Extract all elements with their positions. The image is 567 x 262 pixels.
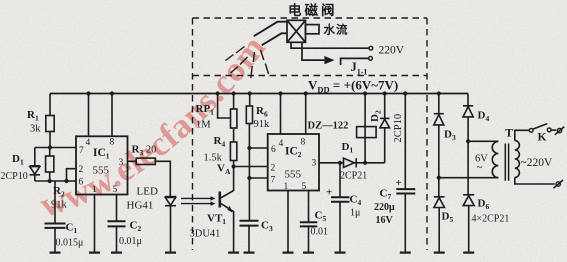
- dashed enclosure left vertical: [192, 18, 194, 250]
- ground foot LED: [165, 252, 176, 254]
- node AC2 junction dot: [466, 139, 470, 143]
- phototransistor VT1 collector wire: [221, 167, 234, 198]
- svg-text:16V: 16V: [376, 215, 394, 226]
- svg-text:220μ: 220μ: [374, 202, 395, 213]
- IC2 pin 7 wire: [249, 177, 267, 179]
- ground foot IC2 pin1: [283, 252, 294, 254]
- svg-text:DZ—122: DZ—122: [308, 121, 349, 132]
- line terminal bottom: [556, 182, 560, 186]
- diode D1 (2CP21) symbol: [344, 158, 355, 167]
- IC2 pin labels: [271, 138, 317, 193]
- svg-text:1M: 1M: [196, 120, 211, 131]
- svg-text:91k: 91k: [51, 200, 68, 211]
- capacitor C7 top lead: [404, 94, 406, 189]
- svg-text:+: +: [326, 187, 332, 199]
- transformer primary top wire: [468, 140, 498, 142]
- valve outlet pipe: [306, 25, 320, 34]
- diode D1 branch wire: [34, 148, 36, 182]
- resistor R2 leads: [49, 148, 51, 182]
- svg-text:电磁阀: 电磁阀: [288, 2, 338, 18]
- svg-text:1μ: 1μ: [350, 208, 360, 219]
- node A junction dot: [48, 145, 52, 149]
- svg-text:3: 3: [119, 158, 124, 168]
- diode D4 branch wire: [467, 94, 469, 195]
- IC2 pin 1 wire to ground: [287, 191, 289, 253]
- solenoid valve body: [287, 20, 306, 42]
- diode D6 symbol: [463, 194, 474, 196]
- diode D5 symbol: [434, 196, 445, 198]
- svg-text:8: 8: [110, 138, 115, 148]
- ground foot C2: [111, 252, 122, 254]
- svg-text:~220V: ~220V: [521, 157, 553, 169]
- diode D6 bottom lead: [468, 206, 470, 253]
- VDD rail wire: [50, 93, 468, 95]
- IC2 pin 2 wire from VA: [234, 166, 268, 168]
- svg-text:4: 4: [86, 138, 91, 148]
- svg-text:3DU41: 3DU41: [190, 229, 221, 240]
- svg-text:0.01μ: 0.01μ: [119, 236, 142, 247]
- diode D5 bottom lead: [438, 208, 440, 253]
- svg-text:2: 2: [79, 165, 84, 175]
- potentiometer RP1 body: [231, 109, 237, 128]
- junction dot relay bottom: [363, 161, 367, 165]
- wire switch to line terminal: [551, 129, 556, 131]
- diode D4 symbol: [463, 105, 473, 107]
- resistor R6 leads: [248, 94, 250, 221]
- relay contact J1-1 arrow: [324, 56, 334, 64]
- resistor R1 body: [46, 116, 54, 132]
- LED HG41 symbol: [165, 196, 176, 198]
- IC2 555 box: [268, 134, 319, 191]
- wire valve to 220V top terminal: [291, 42, 369, 48]
- ground foot IC1 pin1: [89, 252, 100, 254]
- capacitor C3 plates: [240, 221, 259, 226]
- capacitor C4 bottom lead: [339, 202, 341, 253]
- terminal 220V bottom: [369, 56, 373, 60]
- svg-text:5: 5: [302, 182, 307, 192]
- svg-text:220V: 220V: [379, 45, 405, 57]
- ground foot D6: [463, 252, 474, 254]
- relay coil DZ wire: [364, 94, 366, 163]
- ground foot C4: [335, 252, 346, 254]
- svg-text:2CP10: 2CP10: [1, 171, 28, 182]
- transformer secondary winding: [515, 141, 520, 178]
- IC2 pin 8 wire to rail: [305, 94, 307, 135]
- node AC1 junction dot: [437, 176, 441, 180]
- resistor R4 body: [230, 142, 236, 161]
- node B junction dots: [48, 179, 52, 183]
- svg-text:2CP21: 2CP21: [340, 171, 367, 182]
- svg-text:T: T: [505, 126, 513, 140]
- ground foot C5: [303, 252, 314, 254]
- svg-text:7: 7: [79, 146, 84, 156]
- svg-text:6: 6: [79, 178, 84, 188]
- diode D3 symbol: [434, 113, 444, 115]
- junction dot C4 branch: [338, 161, 342, 165]
- svg-text:水流: 水流: [324, 23, 349, 37]
- diode D2 symbol: [380, 117, 390, 119]
- svg-text:555: 555: [93, 165, 110, 177]
- capacitor C2 plates: [108, 221, 126, 226]
- ground foot D5: [434, 252, 445, 254]
- IC2 pin 3 wire: [319, 162, 344, 164]
- svg-text:7: 7: [271, 176, 276, 186]
- pin 2 wire of IC1: [67, 169, 77, 181]
- switch K throw circle: [547, 128, 551, 132]
- transformer primary winding: [492, 141, 498, 177]
- LED light arrows to VT1: [181, 198, 212, 203]
- resistor R1 leads: [49, 94, 51, 148]
- svg-text:91k: 91k: [254, 119, 271, 130]
- relay contact fixed lever: [341, 58, 369, 65]
- ground foot VT1 emitter: [228, 252, 239, 254]
- IC2 pin 5 wire to C5: [308, 191, 310, 223]
- IC2 pin 6 wire: [249, 147, 267, 149]
- capacitor C7 bottom lead: [404, 194, 406, 253]
- svg-text:4×2CP21: 4×2CP21: [472, 214, 510, 225]
- capacitor C5 plates: [300, 222, 318, 226]
- spray nozzle pipe: [254, 22, 287, 37]
- VT1 emitter arrowhead: [227, 206, 232, 213]
- resistor R6 body: [246, 106, 252, 124]
- svg-text:6: 6: [271, 145, 276, 155]
- transformer core: [505, 144, 508, 181]
- IC1 pin 4 wire to rail: [88, 94, 90, 137]
- svg-text:1: 1: [92, 185, 97, 195]
- svg-text:3: 3: [312, 159, 317, 169]
- wire D1 cathode to relay/D2 node: [354, 162, 385, 164]
- IC2 pin 4 wire to rail: [280, 94, 282, 135]
- svg-text:8: 8: [301, 138, 306, 148]
- ground foot C3: [244, 252, 255, 254]
- IC1 pin 8 wire to rail: [111, 94, 113, 137]
- terminal 220V top: [369, 46, 373, 50]
- svg-text:4: 4: [279, 139, 284, 149]
- potentiometer RP1 leads: [233, 94, 235, 143]
- dashed enclosure right vertical: [426, 18, 428, 250]
- capacitor C7 plates: [396, 189, 415, 193]
- water spray dashes: [226, 47, 269, 79]
- capacitor C2 bottom lead: [116, 226, 118, 252]
- svg-text:5: 5: [113, 185, 118, 195]
- svg-text:~: ~: [477, 162, 483, 174]
- phototransistor VT1 emitter wire: [221, 204, 234, 253]
- svg-text:+: +: [396, 177, 402, 189]
- IC1 pin 5 wire to C2: [116, 195, 118, 222]
- svg-text:LED: LED: [137, 186, 158, 198]
- IC1 pin 3 wire: [128, 161, 171, 196]
- capacitor C1 plates: [45, 224, 66, 228]
- dashed enclosure top edge: [193, 17, 428, 19]
- secondary bottom wire: [515, 177, 555, 184]
- svg-text:HG41: HG41: [127, 200, 154, 212]
- dashed enclosure inner horizontal edge: [193, 75, 428, 77]
- wire valve to relay contact: [302, 42, 324, 60]
- capacitor C3 bottom lead: [248, 226, 250, 253]
- potentiometer RP1 wiper wire: [218, 94, 231, 119]
- node B wire (D1/R2/C1 to pin 6): [35, 180, 76, 182]
- capacitor C5 bottom lead: [308, 226, 310, 252]
- svg-text:0.015μ: 0.015μ: [56, 238, 84, 249]
- capacitor C4 plates: [331, 197, 350, 201]
- transformer primary bottom wire: [439, 177, 499, 179]
- resistor R3 body: [136, 158, 155, 164]
- diode D1 symbol: [30, 165, 40, 167]
- junction dots on VDD rail: [86, 91, 90, 95]
- switch K lever: [533, 124, 547, 129]
- secondary top wire to switch: [515, 130, 530, 140]
- capacitor C4 top lead: [339, 163, 341, 197]
- svg-text:0.01: 0.01: [311, 227, 329, 238]
- svg-text:K: K: [538, 132, 547, 144]
- diode D2 wire: [384, 94, 386, 163]
- node VA junction dot: [232, 164, 236, 168]
- relay coil DZ box: [357, 127, 377, 138]
- resistor R4 bottom lead: [233, 161, 235, 167]
- svg-text:2CP10: 2CP10: [393, 114, 404, 143]
- capacitor C1 leads: [54, 181, 56, 253]
- svg-text:2: 2: [271, 164, 276, 174]
- svg-text:3k: 3k: [30, 124, 41, 135]
- svg-text:555: 555: [285, 169, 302, 181]
- node A wire (R1 bottom to pin 7): [35, 147, 76, 149]
- IC1 pin 1 wire to ground: [94, 195, 96, 253]
- line terminal top: [557, 128, 561, 132]
- switch K pole circle: [529, 128, 533, 132]
- svg-text:R3 20: R3 20: [132, 144, 157, 158]
- IC1 pin labels: [79, 138, 124, 196]
- IC1 555 box: [76, 136, 128, 194]
- ground foot C1: [50, 252, 61, 254]
- resistor R2 body: [46, 156, 54, 172]
- ground foot C7: [400, 252, 411, 254]
- phototransistor VT1 base bar: [219, 192, 222, 208]
- diode D3 branch wire: [438, 94, 440, 197]
